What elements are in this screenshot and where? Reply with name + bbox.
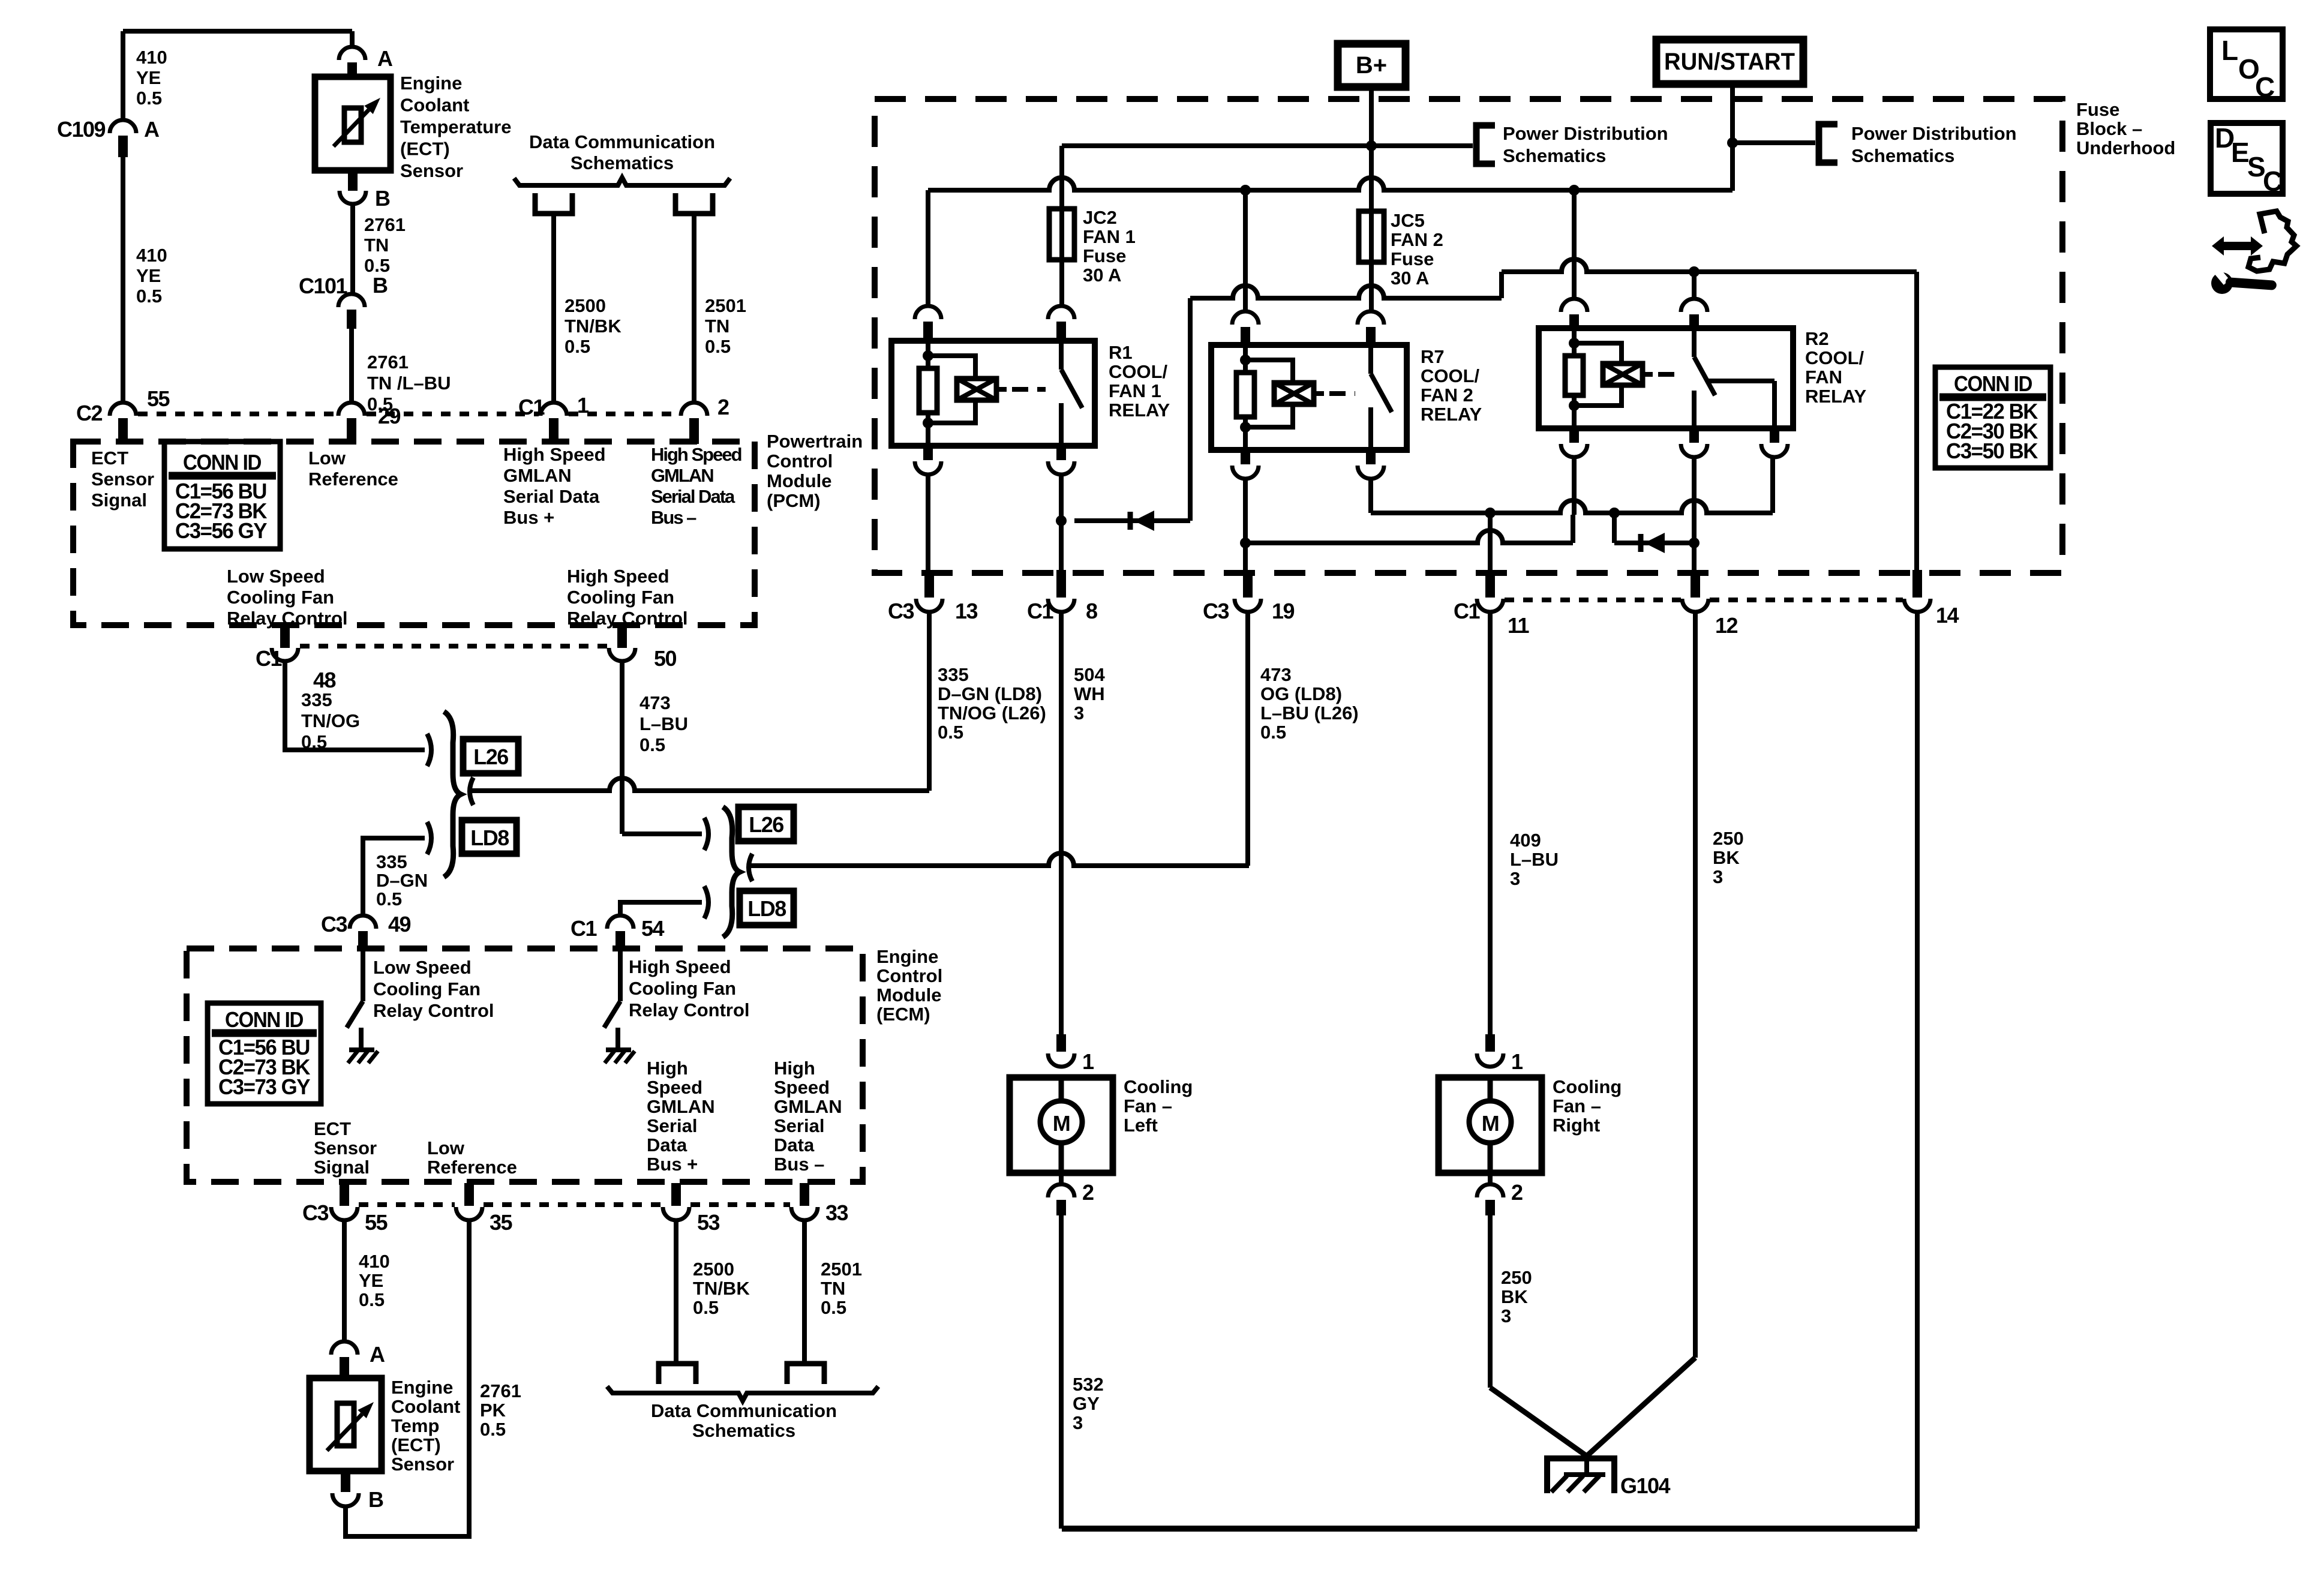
svg-text:B: B	[375, 186, 390, 211]
svg-text:0.5: 0.5	[359, 1289, 385, 1310]
svg-text:335: 335	[301, 689, 332, 710]
svg-text:D–GN (LD8): D–GN (LD8)	[938, 683, 1042, 704]
svg-text:0.5: 0.5	[639, 734, 665, 755]
svg-text:Signal: Signal	[91, 490, 147, 511]
svg-text:Temp: Temp	[391, 1415, 439, 1436]
svg-text:L: L	[2221, 35, 2238, 66]
svg-text:30 A: 30 A	[1083, 265, 1121, 286]
svg-text:Sensor: Sensor	[391, 1454, 454, 1475]
svg-text:R2: R2	[1805, 328, 1829, 349]
svg-text:2: 2	[717, 395, 729, 419]
svg-text:Schematics: Schematics	[571, 152, 674, 173]
svg-text:0.5: 0.5	[136, 286, 162, 307]
svg-text:Right: Right	[1553, 1115, 1600, 1136]
svg-text:CONN ID: CONN ID	[1954, 371, 2032, 396]
svg-text:3: 3	[1074, 703, 1084, 724]
svg-text:Serial: Serial	[774, 1115, 824, 1136]
svg-text:Speed: Speed	[647, 1077, 702, 1098]
svg-text:35: 35	[490, 1210, 513, 1235]
svg-text:(ECT): (ECT)	[391, 1434, 441, 1455]
svg-text:33: 33	[825, 1200, 848, 1225]
svg-text:A: A	[377, 46, 393, 71]
svg-text:D–GN: D–GN	[376, 870, 428, 891]
svg-text:TN/BK: TN/BK	[565, 316, 621, 337]
svg-text:0.5: 0.5	[136, 88, 162, 109]
svg-text:2500: 2500	[693, 1259, 734, 1280]
svg-text:0.5: 0.5	[376, 888, 402, 909]
svg-text:R7: R7	[1421, 346, 1445, 367]
svg-text:High: High	[647, 1058, 688, 1079]
svg-text:C1: C1	[1454, 599, 1480, 623]
svg-text:11: 11	[1508, 613, 1530, 638]
svg-text:High: High	[774, 1058, 815, 1079]
svg-text:335: 335	[938, 664, 969, 685]
svg-text:LD8: LD8	[470, 825, 509, 850]
svg-text:Fan –: Fan –	[1124, 1095, 1172, 1116]
svg-text:L–BU: L–BU	[639, 713, 688, 734]
svg-text:Fuse: Fuse	[1391, 248, 1434, 269]
svg-text:14: 14	[1936, 603, 1959, 628]
svg-text:BK: BK	[1501, 1286, 1528, 1307]
svg-text:L–BU (L26): L–BU (L26)	[1260, 703, 1359, 724]
svg-text:Fan –: Fan –	[1553, 1095, 1601, 1116]
svg-text:Data: Data	[647, 1134, 687, 1155]
svg-text:High Speed: High Speed	[651, 444, 741, 465]
svg-text:(ECM): (ECM)	[876, 1004, 930, 1025]
svg-text:M: M	[1053, 1111, 1070, 1136]
svg-text:2761: 2761	[480, 1380, 521, 1401]
svg-text:0.5: 0.5	[821, 1297, 846, 1318]
svg-text:Low Speed: Low Speed	[373, 957, 472, 978]
svg-text:L26: L26	[473, 745, 508, 769]
svg-text:YE: YE	[359, 1270, 383, 1291]
svg-text:Left: Left	[1124, 1115, 1158, 1136]
svg-text:C3: C3	[302, 1200, 328, 1225]
svg-text:TN: TN	[364, 235, 389, 256]
svg-text:GMLAN: GMLAN	[774, 1096, 842, 1117]
svg-text:C3: C3	[888, 599, 914, 623]
svg-text:LD8: LD8	[747, 896, 786, 921]
svg-text:B+: B+	[1356, 52, 1387, 79]
svg-text:GMLAN: GMLAN	[651, 465, 713, 486]
svg-text:Low: Low	[308, 448, 346, 469]
svg-text:Signal: Signal	[314, 1157, 370, 1178]
svg-text:ECT: ECT	[91, 448, 128, 469]
svg-text:C3: C3	[321, 912, 347, 936]
svg-text:C1: C1	[256, 646, 282, 671]
svg-text:R1: R1	[1109, 342, 1133, 363]
svg-text:A: A	[370, 1342, 385, 1367]
svg-text:TN/OG (L26): TN/OG (L26)	[938, 703, 1046, 724]
svg-text:49: 49	[388, 912, 411, 936]
svg-text:(ECT): (ECT)	[400, 139, 450, 160]
svg-text:Coolant: Coolant	[391, 1396, 460, 1417]
svg-text:JC2: JC2	[1083, 207, 1117, 228]
svg-text:C109: C109	[57, 117, 106, 142]
svg-text:0.5: 0.5	[693, 1297, 719, 1318]
svg-text:TN/OG: TN/OG	[301, 710, 360, 731]
svg-text:Fuse: Fuse	[2076, 99, 2119, 120]
svg-text:2501: 2501	[705, 295, 746, 316]
svg-text:Module: Module	[767, 470, 832, 491]
svg-text:Schematics: Schematics	[1503, 145, 1606, 166]
svg-text:Speed: Speed	[774, 1077, 830, 1098]
svg-text:FAN 1: FAN 1	[1083, 226, 1136, 247]
svg-text:M: M	[1482, 1111, 1499, 1136]
svg-text:Low Speed: Low Speed	[227, 566, 325, 587]
svg-text:250: 250	[1713, 828, 1744, 849]
svg-text:Control: Control	[876, 965, 942, 986]
svg-text:TN: TN	[821, 1278, 845, 1299]
svg-text:Relay Control: Relay Control	[629, 999, 750, 1020]
svg-text:Bus –: Bus –	[774, 1154, 824, 1175]
svg-text:COOL/: COOL/	[1421, 365, 1480, 386]
svg-text:GY: GY	[1073, 1393, 1100, 1414]
svg-text:54: 54	[641, 916, 665, 941]
svg-text:OG (LD8): OG (LD8)	[1260, 683, 1342, 704]
svg-text:CONN ID: CONN ID	[225, 1007, 303, 1032]
svg-text:C1: C1	[1027, 599, 1053, 623]
svg-text:GMLAN: GMLAN	[647, 1096, 715, 1117]
svg-text:G104: G104	[1620, 1473, 1671, 1498]
svg-text:Bus +: Bus +	[503, 507, 554, 528]
svg-text:Temperature: Temperature	[400, 116, 512, 137]
svg-text:Serial Data: Serial Data	[651, 486, 735, 507]
svg-text:3: 3	[1073, 1412, 1083, 1433]
svg-text:410: 410	[136, 47, 167, 68]
svg-text:TN: TN	[705, 316, 729, 337]
svg-text:RELAY: RELAY	[1421, 404, 1482, 425]
svg-text:C101: C101	[299, 274, 348, 298]
svg-text:473: 473	[639, 692, 671, 713]
svg-text:BK: BK	[1713, 847, 1740, 868]
svg-text:0.5: 0.5	[301, 731, 327, 752]
svg-text:CONN ID: CONN ID	[183, 450, 261, 475]
svg-text:FAN 2: FAN 2	[1421, 385, 1473, 406]
svg-text:Relay Control: Relay Control	[373, 1000, 494, 1021]
svg-text:Sensor: Sensor	[400, 160, 463, 181]
svg-text:0.5: 0.5	[938, 722, 963, 743]
svg-text:2: 2	[1082, 1180, 1094, 1205]
svg-text:Engine: Engine	[400, 73, 462, 94]
svg-text:Cooling Fan: Cooling Fan	[227, 587, 334, 608]
svg-text:Serial: Serial	[647, 1115, 697, 1136]
svg-text:C1: C1	[518, 395, 545, 419]
svg-text:1: 1	[1511, 1049, 1523, 1074]
svg-text:Fuse: Fuse	[1083, 245, 1126, 266]
svg-text:GMLAN: GMLAN	[503, 465, 572, 486]
svg-text:Cooling Fan: Cooling Fan	[629, 978, 736, 999]
svg-text:Power Distribution: Power Distribution	[1851, 123, 2017, 144]
svg-text:2: 2	[1511, 1180, 1523, 1205]
svg-text:ECT: ECT	[314, 1118, 351, 1139]
svg-text:409: 409	[1510, 830, 1541, 851]
svg-text:TN /L–BU: TN /L–BU	[367, 373, 451, 394]
svg-text:Data Communication: Data Communication	[529, 131, 715, 152]
svg-text:Schematics: Schematics	[1851, 145, 1954, 166]
svg-text:Cooling Fan: Cooling Fan	[373, 978, 481, 999]
svg-text:C3: C3	[1203, 599, 1229, 623]
svg-text:L–BU: L–BU	[1510, 849, 1559, 870]
svg-text:FAN 2: FAN 2	[1391, 229, 1443, 250]
svg-text:Cooling: Cooling	[1124, 1076, 1193, 1097]
svg-text:19: 19	[1272, 599, 1295, 623]
svg-text:0.5: 0.5	[565, 336, 590, 357]
svg-text:2761: 2761	[364, 214, 406, 235]
svg-text:RUN/START: RUN/START	[1664, 49, 1795, 75]
svg-text:3: 3	[1713, 866, 1723, 887]
svg-text:C: C	[2263, 166, 2283, 197]
svg-text:Relay Control: Relay Control	[567, 608, 688, 629]
svg-text:B: B	[373, 273, 388, 298]
svg-text:0.5: 0.5	[705, 336, 731, 357]
svg-text:YE: YE	[136, 265, 161, 286]
svg-text:L26: L26	[749, 812, 783, 837]
svg-text:Sensor: Sensor	[91, 469, 154, 490]
svg-text:Bus +: Bus +	[647, 1154, 698, 1175]
svg-text:Underhood: Underhood	[2076, 137, 2175, 158]
svg-text:Module: Module	[876, 984, 942, 1005]
svg-text:504: 504	[1074, 664, 1105, 685]
svg-text:COOL/: COOL/	[1805, 347, 1864, 368]
svg-text:Coolant: Coolant	[400, 95, 469, 116]
svg-text:Cooling Fan: Cooling Fan	[567, 587, 674, 608]
svg-text:12: 12	[1715, 613, 1738, 638]
svg-text:1: 1	[577, 393, 589, 418]
svg-text:Data Communication: Data Communication	[651, 1400, 837, 1421]
svg-text:Engine: Engine	[391, 1377, 453, 1398]
svg-text:55: 55	[365, 1210, 388, 1235]
svg-text:A: A	[144, 117, 160, 142]
svg-text:Control: Control	[767, 451, 833, 472]
svg-text:Reference: Reference	[308, 469, 398, 490]
svg-text:TN/BK: TN/BK	[693, 1278, 750, 1299]
svg-text:C3=56 GY: C3=56 GY	[175, 518, 267, 543]
svg-text:30 A: 30 A	[1391, 268, 1429, 289]
svg-text:410: 410	[359, 1251, 390, 1272]
svg-text:Engine: Engine	[876, 946, 938, 967]
svg-text:Powertrain: Powertrain	[767, 431, 863, 452]
svg-text:Low: Low	[427, 1137, 465, 1158]
svg-text:1: 1	[1082, 1049, 1094, 1074]
svg-text:473: 473	[1260, 664, 1292, 685]
svg-text:48: 48	[313, 668, 336, 692]
svg-text:(PCM): (PCM)	[767, 490, 821, 511]
svg-text:335: 335	[376, 851, 407, 872]
svg-text:High Speed: High Speed	[503, 444, 606, 465]
svg-text:2500: 2500	[565, 295, 606, 316]
svg-text:WH: WH	[1074, 683, 1105, 704]
svg-text:Block –: Block –	[2076, 118, 2142, 139]
svg-text:2501: 2501	[821, 1259, 862, 1280]
svg-text:410: 410	[136, 245, 167, 266]
svg-text:COOL/: COOL/	[1109, 361, 1168, 382]
svg-text:3: 3	[1501, 1305, 1511, 1326]
svg-text:0.5: 0.5	[1260, 722, 1286, 743]
svg-text:0.5: 0.5	[480, 1419, 506, 1440]
svg-text:JC5: JC5	[1391, 210, 1425, 231]
svg-text:2761: 2761	[367, 352, 409, 373]
svg-text:FAN 1: FAN 1	[1109, 380, 1161, 401]
svg-text:Power Distribution: Power Distribution	[1503, 123, 1668, 144]
svg-text:C3=73 GY: C3=73 GY	[218, 1074, 310, 1099]
svg-text:3: 3	[1510, 868, 1520, 889]
svg-text:C: C	[2255, 71, 2275, 103]
svg-text:13: 13	[955, 599, 978, 623]
svg-text:Schematics: Schematics	[692, 1420, 795, 1441]
svg-text:C3=50 BK: C3=50 BK	[1946, 439, 2038, 463]
svg-text:FAN: FAN	[1805, 367, 1842, 388]
svg-text:532: 532	[1073, 1374, 1104, 1395]
svg-text:RELAY: RELAY	[1109, 400, 1170, 421]
svg-text:8: 8	[1086, 599, 1097, 623]
svg-text:C1: C1	[571, 916, 597, 941]
svg-text:Cooling: Cooling	[1553, 1076, 1622, 1097]
svg-text:B: B	[368, 1487, 383, 1512]
svg-text:RELAY: RELAY	[1805, 386, 1867, 407]
svg-text:High Speed: High Speed	[629, 956, 731, 977]
svg-text:50: 50	[654, 646, 677, 671]
svg-text:PK: PK	[480, 1400, 506, 1421]
svg-text:C2: C2	[76, 401, 102, 425]
svg-text:Sensor: Sensor	[314, 1137, 377, 1158]
svg-text:Data: Data	[774, 1134, 815, 1155]
svg-text:YE: YE	[136, 67, 161, 88]
svg-text:High Speed: High Speed	[567, 566, 669, 587]
svg-text:Bus –: Bus –	[651, 507, 696, 528]
svg-text:53: 53	[697, 1210, 720, 1235]
svg-text:Serial Data: Serial Data	[503, 486, 600, 507]
svg-text:250: 250	[1501, 1267, 1532, 1288]
svg-text:Reference: Reference	[427, 1157, 517, 1178]
svg-text:55: 55	[147, 386, 170, 411]
